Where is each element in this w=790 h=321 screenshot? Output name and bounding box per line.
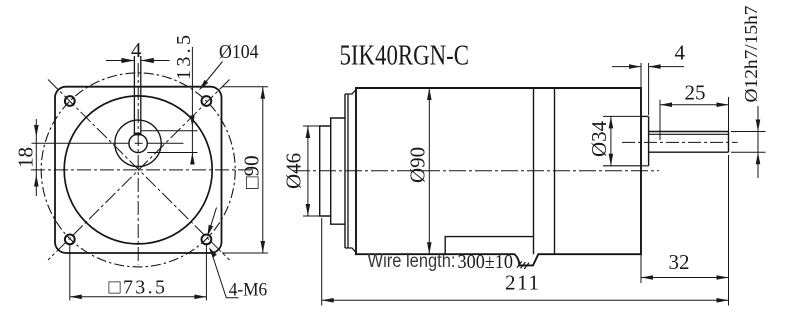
dim 4 (front) arrow right [141,58,154,63]
diagonal centerline TL-BR [48,80,230,261]
shaft bottom line [649,151,729,153]
dim 32 dimension line [641,277,729,279]
dim sq73.5 extension left [69,245,71,301]
dim 32 arrow left [641,275,653,280]
label 4-M6 leader arrow [209,247,217,257]
body joint line [533,88,535,254]
bottom notch [445,237,533,255]
diagonal centerline TR-BL [48,80,230,261]
dim 13.5 arrow upper [190,116,195,128]
dim 4 (front) dimension line left tail [106,60,134,62]
dim sq73.5 extension right [205,245,207,301]
dim sq90 extension bottom [222,252,268,254]
dim sq73.5 arrow left [70,295,82,300]
dim 32 extension right [728,155,730,306]
dim sq73.5 arrow right [194,295,206,300]
dim 4 (rear) extension right [648,63,650,115]
hole pointer arrow upper [207,225,213,237]
dim D34 arrow bottom [609,154,614,166]
dim 13.5 extension line lower [147,152,197,154]
dim 211 arrow left [322,298,334,303]
dim 4 (rear) left tail [612,66,641,68]
boss horizontal centerline left segment [32,142,129,144]
svg-text:4: 4 [131,38,142,62]
svg-text:Ø90: Ø90 [405,147,429,183]
dim D34 extension top [603,115,641,117]
front ring top edge [345,90,356,95]
svg-text:18: 18 [14,147,38,168]
dim D12h7/15h7 arrow upper [756,120,761,132]
dim 4 (rear) arrow left [629,64,641,69]
dim 32 arrow right [717,275,729,280]
dim D104 leader arrow [199,80,208,91]
svg-text:13.5: 13.5 [173,35,195,80]
dim 13.5 arrow lower [190,153,195,165]
svg-text:Ø104: Ø104 [219,41,259,63]
shaft top line [649,131,729,133]
dim D90 arrow top [427,88,432,100]
dim 25 dimension line [660,104,729,106]
dim D34 dimension line [610,116,612,165]
dim 13.5 extension line upper [141,130,198,132]
svg-text:Ø34: Ø34 [587,120,611,157]
svg-text:Ø46: Ø46 [282,153,306,189]
svg-text:Wire length:: Wire length: [368,251,456,272]
boss horizontal centerline mid dash [135,142,143,144]
dim 18 arrow upper [34,125,39,137]
dim 4 (rear) extension left [640,63,642,88]
shaft circle [129,134,147,152]
dim D12h7/15h7 dimension line [757,106,759,178]
dim D104 leader [203,62,223,87]
wire break symbol [517,261,529,269]
boss horizontal centerline right segment [148,142,184,144]
dim D46 arrow bottom [306,204,311,216]
dim D46 extension bottom [303,215,320,217]
flange square [55,87,222,253]
svg-text:300±10: 300±10 [458,251,514,273]
shaft end line [728,132,730,153]
boss34 right edge [648,116,650,165]
dim sq90 arrow top [261,87,266,99]
dim 18 arrow lower [34,175,39,187]
boss circle [115,120,161,166]
label 4-M6 leader [213,257,239,298]
dim D46 extension top [303,125,320,127]
svg-text:5IK40RGN-C: 5IK40RGN-C [340,40,470,72]
dim 4 (rear) arrow right [649,64,661,69]
dim 4 (rear) right tail [649,66,684,68]
dim 25 arrow left [660,102,672,107]
vertical centerline [137,63,139,265]
dim D46 arrow top [306,126,311,138]
boss46 outline [320,126,331,216]
dim sq73.5 dimension line [70,296,207,298]
dim D12h7/15h7 arrow lower [756,152,761,164]
shaft flat line [649,133,729,135]
dim 32 extension left [640,254,642,283]
main centerline [293,170,659,172]
svg-text:Ø12h7/15h7: Ø12h7/15h7 [741,5,761,102]
hole bottom-right [202,235,212,245]
svg-text:32: 32 [669,250,690,274]
dim 4 (front) dimension line right tail [141,60,170,62]
boss34 top edge [641,115,649,117]
step2 outline [331,118,345,224]
dim 25 extension right [728,97,730,132]
svg-text:□90: □90 [240,155,264,189]
gearbox face circle [64,96,212,244]
front ring left edge [344,94,346,248]
dim 211 arrow right [717,298,729,303]
dim 13.5 dimension line [191,47,193,165]
dim D34 arrow top [609,116,614,128]
bolt circle (dash-dot) [41,73,235,267]
hole bottom-left [65,235,75,245]
shaft centerline [622,141,738,143]
dim D46 dimension line [307,126,309,216]
dim sq90 extension top [222,86,268,88]
dim sq90 arrow bottom [261,241,266,253]
body joint line 2 [554,88,556,254]
dim 4 (front) arrow left [121,58,134,63]
horizontal centerline [31,169,252,171]
dim sq90 dimension line [262,87,264,253]
dim D12h7/15h7 extension bottom [731,151,766,153]
pinion slot right line [140,56,142,136]
pinion slot bottom cap [134,133,141,136]
dim D12h7/15h7 extension top [731,131,766,133]
svg-text:25: 25 [685,81,706,105]
dim D90 dimension line [428,88,430,254]
hole top-right [202,96,212,106]
svg-text:211: 211 [505,271,539,295]
dim 25 arrow right [717,102,729,107]
hole top-left [65,96,75,106]
front ring bottom edge [345,248,356,253]
hole pointer line upper [209,208,217,232]
motor body outline [356,88,641,265]
boss34 bottom edge + extension [603,165,649,167]
dim D90 arrow bottom [427,242,432,254]
dim 25 extension left [659,100,661,140]
dim 211 extension left [321,218,323,306]
dim 211 dimension line [322,299,729,301]
svg-text:□73.5: □73.5 [109,277,166,299]
pinion slot left line [133,56,135,136]
svg-text:4: 4 [675,41,686,65]
front ring left inner edge [347,94,349,248]
dim 18 dimension line [35,119,37,196]
